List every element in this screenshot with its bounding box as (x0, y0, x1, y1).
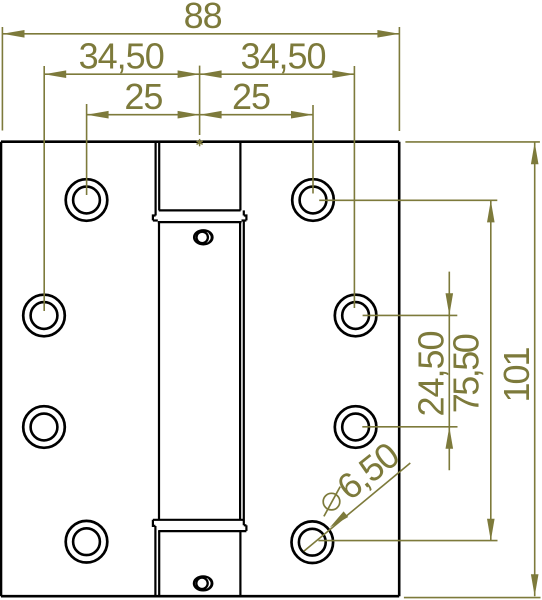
svg-text:88: 88 (184, 0, 222, 36)
extension line hole R4 (318, 540, 497, 542)
bottom collar (153, 520, 247, 531)
dimension 34,50 left (44, 66, 199, 311)
svg-text:25: 25 (232, 76, 270, 117)
extension line hole R3 (362, 426, 457, 428)
part top edge (1, 140, 399, 143)
hole R2 (335, 295, 377, 337)
dimension 34,50 right (200, 66, 355, 308)
centerline extension (199, 66, 201, 135)
extension line bottom right corner (404, 597, 541, 599)
hole R3 (335, 406, 377, 448)
dimension 75,50 (490, 200, 492, 540)
barrel bottom cap (155, 526, 240, 596)
svg-text:34,50: 34,50 (79, 36, 164, 77)
hole L3 (23, 406, 65, 448)
extension line top right corner (405, 141, 540, 143)
hole R1 (292, 179, 334, 221)
svg-text:34,50: 34,50 (240, 36, 325, 77)
centre asterisk (197, 139, 203, 146)
hole L2 (23, 295, 65, 337)
pin bottom ellipse (194, 576, 212, 590)
extension line hole R2 (363, 314, 458, 316)
barrel tube (159, 222, 240, 520)
hole L4 (66, 521, 108, 563)
hole R4 (292, 521, 334, 563)
dimension 25 right (200, 105, 313, 194)
svg-text:24,50: 24,50 (410, 331, 451, 416)
dimension 25 left (87, 104, 200, 195)
svg-text:6,50: 6,50 (329, 435, 406, 508)
part bottom edge (1, 595, 399, 598)
svg-text:25: 25 (124, 76, 162, 117)
dimension 101 (534, 142, 536, 596)
hole L1 (66, 179, 108, 221)
pin top ellipse (194, 230, 212, 244)
svg-text:101: 101 (496, 347, 537, 402)
extension line hole R1 (319, 199, 497, 201)
top collar (153, 210, 247, 222)
right leaf outline (398, 142, 401, 597)
dimension 88 (2, 27, 399, 131)
right leaf inner edge (243, 222, 245, 526)
dimension diameter 6,50 leader (304, 463, 411, 551)
left leaf outline (0, 142, 2, 597)
svg-text:75,50: 75,50 (446, 334, 487, 413)
barrel top cap (156, 142, 241, 216)
dimension 24,50 (448, 272, 450, 471)
